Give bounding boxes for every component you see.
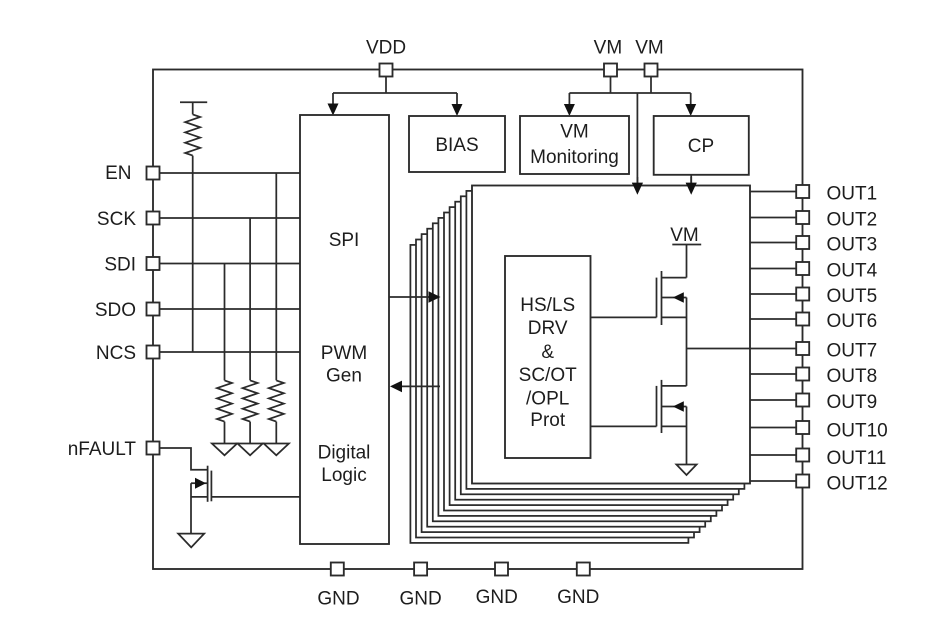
- svg-text:OUT7: OUT7: [827, 341, 878, 362]
- node VM internal supply bar: [672, 244, 701, 246]
- svg-text:CP: CP: [688, 136, 714, 157]
- wire HS gate from driver: [591, 316, 657, 318]
- svg-text:OUT5: OUT5: [827, 286, 878, 307]
- svg-text:NCS: NCS: [96, 343, 136, 364]
- wire transistor source to ground: [190, 483, 192, 533]
- transistor (high-side FET): [656, 278, 658, 318]
- block VM Monitoring: [520, 116, 629, 174]
- wire EN pull-down drop: [275, 173, 277, 380]
- wire VDD to SPI block: [332, 93, 334, 104]
- wire SCK to SPI: [160, 217, 301, 219]
- svg-text:SDO: SDO: [95, 300, 136, 321]
- chip outer boundary: [153, 70, 803, 570]
- svg-text:OUT8: OUT8: [827, 366, 878, 387]
- wire SDO to SPI: [160, 308, 301, 310]
- svg-text:SDI: SDI: [104, 255, 136, 276]
- wire nFAULT to transistor drain: [160, 448, 208, 470]
- svg-text:SPI: SPI: [329, 230, 360, 251]
- svg-text:Logic: Logic: [321, 465, 366, 486]
- svg-text:Gen: Gen: [326, 366, 362, 387]
- wire LS source to ground: [686, 407, 688, 465]
- wire SPI to output stage (control bus): [389, 296, 430, 298]
- wire VM2 down: [650, 77, 652, 94]
- wire VM to output stage: [636, 93, 638, 184]
- resistor (internal pull-up, top-left): [180, 101, 207, 103]
- wire CP to output stage: [690, 175, 692, 184]
- ground (SCK pull-down): [238, 444, 263, 456]
- pin OUT7: [796, 342, 809, 355]
- pin OUT8: [796, 368, 809, 381]
- pin OUT5: [796, 288, 809, 301]
- svg-text:VM: VM: [635, 38, 664, 59]
- pin GND2: [414, 563, 427, 576]
- wire VM to VM Monitoring: [568, 93, 570, 105]
- svg-text:SCK: SCK: [97, 209, 136, 230]
- resistor (SCK pull-down): [243, 380, 258, 421]
- pin nFAULT: [147, 442, 160, 455]
- block SPI / PWM Gen / Digital Logic: [300, 115, 389, 544]
- ground (low-side source): [676, 465, 696, 476]
- pin OUT6: [796, 313, 809, 326]
- svg-text:Prot: Prot: [530, 410, 566, 431]
- svg-text:VDD: VDD: [366, 38, 406, 59]
- wire VDD branch rail: [333, 92, 457, 94]
- resistor (SDI pull-down): [217, 380, 232, 421]
- pin OUT11: [796, 449, 809, 462]
- wire VM to CP: [690, 93, 692, 105]
- pin SDI: [147, 257, 160, 270]
- wire EN to SPI: [160, 172, 301, 174]
- pin OUT9: [796, 394, 809, 407]
- svg-text:OUT6: OUT6: [827, 311, 878, 332]
- svg-text:OUT4: OUT4: [827, 261, 878, 282]
- pin OUT10: [796, 421, 809, 434]
- svg-text:OUT12: OUT12: [827, 474, 888, 495]
- svg-text:OUT1: OUT1: [827, 184, 878, 205]
- pin EN: [147, 167, 160, 180]
- pin VM1: [604, 64, 617, 77]
- ground (SDI pull-down): [212, 444, 237, 456]
- wire VM1 down: [610, 77, 612, 94]
- wire LS gate from driver: [591, 425, 657, 427]
- wire VM branch rail: [569, 92, 690, 94]
- transistor (nFAULT open-drain): [207, 466, 209, 502]
- svg-text:VM: VM: [594, 38, 623, 59]
- wire VM into output stage (redrawn over stack): [636, 177, 638, 184]
- svg-text:Digital: Digital: [318, 443, 371, 464]
- ground (EN pull-down): [264, 444, 289, 456]
- wire OUT7 node to pin: [687, 348, 797, 350]
- wire VDD down: [385, 77, 387, 94]
- ground (nFAULT transistor): [178, 534, 204, 548]
- transistor (low-side FET): [656, 386, 658, 427]
- pin OUT3: [796, 236, 809, 249]
- svg-text:&: &: [541, 342, 554, 363]
- pin NCS: [147, 346, 160, 359]
- svg-text:EN: EN: [105, 163, 131, 184]
- pin GND4: [577, 563, 590, 576]
- block BIAS: [409, 116, 505, 172]
- wire output stage to SPI (feedback): [400, 385, 440, 387]
- resistor (EN pull-down): [269, 380, 284, 421]
- svg-text:OUT11: OUT11: [827, 448, 887, 469]
- pin GND3: [495, 563, 508, 576]
- svg-text:OUT2: OUT2: [827, 210, 878, 231]
- svg-text:SC/OT: SC/OT: [519, 365, 577, 386]
- svg-text:OUT3: OUT3: [827, 235, 878, 256]
- wire VM bar to HS drain: [686, 245, 688, 278]
- pin VM2: [645, 64, 658, 77]
- svg-text:/OPL: /OPL: [526, 389, 569, 410]
- pin OUT2: [796, 211, 809, 224]
- wire NCS to SPI: [160, 351, 301, 353]
- svg-text:VM: VM: [670, 225, 699, 246]
- svg-text:DRV: DRV: [528, 318, 568, 339]
- pin OUT12: [796, 475, 809, 488]
- wire VDD to BIAS block: [456, 93, 458, 105]
- wire pull-up to NCS rail: [192, 156, 194, 352]
- svg-text:HS/LS: HS/LS: [520, 295, 575, 316]
- wire CP into output stage (redrawn over stack): [690, 177, 692, 184]
- svg-text:VM: VM: [560, 122, 589, 143]
- wire HS source to OUT node and LS drain: [686, 298, 688, 386]
- svg-text:OUT9: OUT9: [827, 392, 878, 413]
- pin OUT1: [796, 185, 809, 198]
- svg-text:PWM: PWM: [321, 343, 367, 364]
- pin GND1: [331, 563, 344, 576]
- svg-text:GND: GND: [317, 589, 359, 610]
- wire SCK pull-down drop: [249, 218, 251, 380]
- svg-text:Monitoring: Monitoring: [530, 147, 619, 168]
- wire SDI pull-down drop: [224, 264, 226, 381]
- svg-text:GND: GND: [399, 589, 441, 610]
- svg-text:GND: GND: [476, 587, 518, 608]
- svg-text:nFAULT: nFAULT: [68, 439, 137, 460]
- svg-text:OUT10: OUT10: [827, 421, 888, 442]
- block HS/LS DRV and SC/OT/OPL Prot: [505, 256, 591, 458]
- svg-text:BIAS: BIAS: [435, 135, 478, 156]
- block CP: [654, 116, 749, 175]
- wire transistor gate from Digital Logic: [211, 496, 300, 498]
- block output stage stack (12 half-bridge channels): [410, 245, 688, 543]
- wire SDI to SPI: [160, 263, 301, 265]
- pin VDD: [380, 64, 393, 77]
- pin SDO: [147, 303, 160, 316]
- pin SCK: [147, 212, 160, 225]
- svg-text:GND: GND: [557, 587, 599, 608]
- pin OUT4: [796, 262, 809, 275]
